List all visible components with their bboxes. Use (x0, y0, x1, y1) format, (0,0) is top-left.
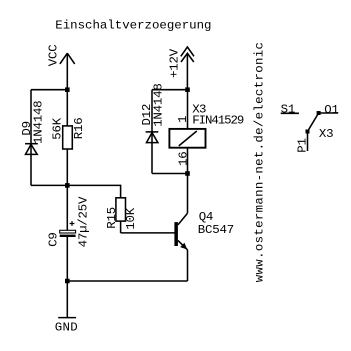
wire D12 top lead (151, 90, 153, 132)
svg-text:www.ostermann-net.de/electroni: www.ostermann-net.de/electronic (252, 42, 266, 282)
svg-text:16: 16 (176, 152, 190, 166)
switch contact X3: pin P1 (307, 132, 309, 152)
supply VCC symbol (60, 53, 75, 89)
svg-text:GND: GND (55, 320, 78, 334)
wire to GND (66, 281, 68, 318)
svg-text:Einschaltverzoegerung: Einschaltverzoegerung (55, 19, 211, 33)
resistor R15 (116, 198, 126, 233)
svg-text:FIN41529: FIN41529 (192, 113, 244, 127)
svg-text:R16: R16 (72, 117, 86, 139)
node junction 3 (bottom rail) (65, 279, 70, 284)
supply +12V symbol (181, 47, 194, 90)
svg-text:10K: 10K (124, 207, 138, 229)
diode D9 (25, 144, 38, 155)
wire junction4 to D12 branch (152, 173, 188, 175)
relay coil X3 FIN41529 (169, 90, 205, 174)
svg-text:O1: O1 (324, 103, 338, 117)
svg-text:+12V: +12V (167, 48, 181, 78)
node junction 4 (collector / relay) (185, 171, 190, 176)
svg-text:56K: 56K (50, 117, 64, 139)
wire junction2 to R15 (67, 185, 120, 197)
svg-text:S1: S1 (281, 102, 295, 116)
switch blade P1-O1 (308, 113, 319, 132)
switch contact X3: pin S1 (281, 112, 299, 114)
capacitor C9 (60, 185, 76, 281)
svg-text:C9: C9 (46, 232, 60, 246)
wire base line to Q4 (121, 232, 175, 234)
svg-text:BC547: BC547 (198, 223, 234, 237)
wire VCC junction to D9 branch (31, 89, 67, 91)
node junction 2 (65, 183, 70, 188)
wire D9 top lead (30, 90, 32, 155)
svg-text:1: 1 (176, 116, 190, 123)
svg-text:X3: X3 (319, 127, 333, 141)
node P1 contact dot (306, 130, 310, 134)
diode D12 (146, 132, 159, 143)
wire D9 branch to junction 2 (31, 184, 67, 186)
wire bottom rail (67, 280, 187, 282)
node junction VCC rail (65, 87, 70, 92)
svg-text:VCC: VCC (46, 44, 60, 66)
svg-text:47µ/25V: 47µ/25V (76, 196, 90, 247)
wire D12 branch to +12V junction (152, 89, 188, 91)
wire D9 bottom lead (30, 154, 32, 185)
node junction 5 (+12V rail) (185, 87, 190, 92)
node O1 contact dot (317, 111, 321, 115)
svg-text:1N4148: 1N4148 (32, 101, 46, 144)
ground GND symbol (58, 317, 76, 319)
resistor R16 (63, 90, 73, 186)
transistor Q4 BC547 (174, 174, 187, 282)
switch contact X3: pin O1 (319, 112, 338, 114)
svg-text:Q4: Q4 (199, 210, 213, 224)
svg-text:P1: P1 (295, 138, 309, 152)
wire D12 bottom lead (151, 133, 153, 174)
svg-text:R15: R15 (105, 207, 119, 229)
